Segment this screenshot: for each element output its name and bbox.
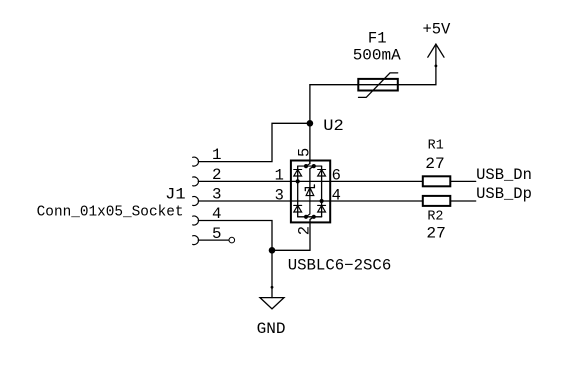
wire pin3 of J1 to U2 pin3 and through to R2 [198, 200, 422, 202]
power symbol +5V arrow [428, 44, 444, 57]
U2 internal junction dot top-left [304, 164, 308, 168]
diode D-lower-left cathode bar [294, 204, 302, 206]
zener diode triangle [306, 188, 314, 196]
junction at ground node [269, 247, 276, 254]
svg-text:+5V: +5V [422, 20, 451, 38]
fuse F1 polyfuse diagonal [359, 73, 398, 98]
wire pin5 of J1 stub [198, 239, 229, 241]
wire U2 pin2 to ground junction [272, 249, 310, 251]
U2 internal junction dot left IO1 [296, 179, 300, 183]
diode D-upper-right triangle [318, 170, 326, 177]
power pin tick GND [271, 286, 274, 289]
svg-text:USB_Dp: USB_Dp [476, 185, 532, 203]
U2 internal junction dot bottom-left [304, 215, 308, 219]
diode D-upper-left triangle [294, 170, 302, 177]
svg-text:J1: J1 [165, 185, 186, 203]
svg-text:U2: U2 [323, 117, 344, 135]
wire fuse right segment to +5V [398, 46, 436, 84]
svg-text:USBLC6−2SC6: USBLC6−2SC6 [288, 257, 392, 275]
U2 internal junction dot top-right [312, 164, 316, 168]
IC U2 body outline [291, 161, 330, 223]
no-connect open circle on J1 pin 5 [229, 237, 235, 243]
diode D-upper-right cathode bar [318, 169, 326, 171]
U2 internal junction dot bottom-right [312, 215, 316, 219]
connector J1 pin 4 arc [193, 216, 199, 225]
connector J1 pin 2 arc [193, 177, 199, 186]
svg-text:2: 2 [212, 166, 221, 184]
svg-text:1: 1 [212, 146, 221, 164]
connector J1 pin 3 arc [193, 197, 199, 206]
svg-text:27: 27 [425, 155, 445, 173]
U2 internal bottom rail [298, 216, 322, 218]
wire pin4 of J1 down to ground node [198, 221, 272, 298]
resistor R2 body [423, 196, 451, 206]
connector J1 pin 1 arc [193, 157, 199, 166]
connector J1 pin 5 arc [193, 236, 199, 245]
U2 pin2 internal lead [310, 217, 314, 251]
svg-text:3: 3 [275, 186, 284, 204]
wire vertical from fuse to U2 pin5 [309, 85, 311, 164]
svg-text:4: 4 [332, 186, 341, 204]
svg-text:5: 5 [212, 225, 221, 243]
diode D-lower-left triangle [294, 205, 302, 212]
svg-text:3: 3 [212, 186, 221, 204]
U2 internal top rail [298, 165, 322, 167]
diode D-lower-right triangle [318, 205, 326, 212]
svg-text:6: 6 [332, 167, 341, 185]
wire R2 to USB_Dp label [450, 200, 475, 202]
svg-text:4: 4 [212, 205, 221, 223]
svg-text:GND: GND [257, 320, 286, 338]
svg-text:1: 1 [275, 167, 284, 185]
svg-text:R2: R2 [427, 210, 443, 225]
fuse F1 center line [358, 84, 398, 86]
svg-text:USB_Dn: USB_Dn [476, 166, 532, 184]
wire fuse left segment [310, 84, 358, 86]
svg-text:Conn_01x05_Socket: Conn_01x05_Socket [37, 204, 184, 220]
zener diode cathode bar [305, 185, 314, 191]
svg-text:5: 5 [296, 148, 314, 157]
wire pin1 of J1 up to fuse node [198, 123, 310, 161]
fuse F1 body [358, 79, 398, 91]
wire pin2 of J1 to U2 pin1 and through to R1 [198, 180, 422, 182]
svg-text:R1: R1 [428, 139, 444, 154]
diode D-upper-left cathode bar [294, 169, 302, 171]
svg-text:500mA: 500mA [353, 47, 402, 65]
svg-text:2: 2 [296, 226, 314, 235]
U2 internal zener column lower lead [306, 188, 310, 217]
ground symbol GND triangle [260, 298, 284, 309]
wire R1 to USB_Dn label [450, 180, 475, 182]
svg-text:27: 27 [426, 224, 446, 242]
power pin tick +5V [435, 65, 438, 68]
diode D-lower-right cathode bar [318, 204, 326, 206]
U2 right diode column upper stub [321, 166, 323, 217]
U2 pin5 internal lead [306, 161, 310, 167]
U2 internal junction dot right IO2 [319, 199, 323, 203]
resistor R1 body [423, 176, 451, 186]
svg-text:F1: F1 [368, 29, 387, 47]
junction at U2 VBUS node [307, 120, 314, 127]
U2 left diode column upper stub [297, 166, 299, 217]
U2 internal zener column upper lead [310, 166, 314, 196]
